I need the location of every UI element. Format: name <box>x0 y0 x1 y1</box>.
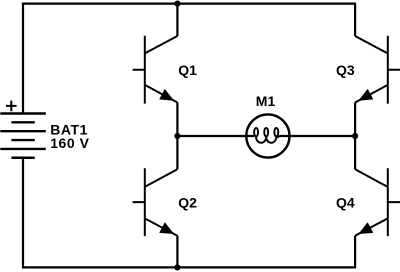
svg-text:Q1: Q1 <box>178 62 197 78</box>
svg-text:160 V: 160 V <box>50 135 89 151</box>
svg-text:Q3: Q3 <box>336 62 355 78</box>
svg-text:Q2: Q2 <box>178 194 197 210</box>
svg-text:Q4: Q4 <box>336 194 355 210</box>
svg-text:M1: M1 <box>256 93 276 109</box>
